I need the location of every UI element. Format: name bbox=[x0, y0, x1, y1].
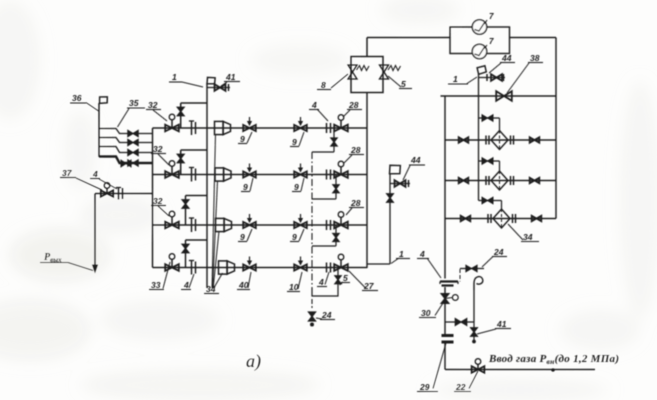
valve vent row 2 bbox=[333, 185, 339, 193]
label 7 top bbox=[485, 12, 495, 24]
caption a) bbox=[246, 351, 261, 372]
flag vent 36 bbox=[99, 96, 108, 104]
label 5 row4 bbox=[340, 273, 351, 285]
label 4 output bbox=[90, 169, 117, 189]
wire row 3 main bbox=[153, 224, 368, 226]
flange right row 1 bbox=[327, 123, 331, 133]
wire row 4 main bbox=[153, 267, 368, 269]
filter 34-3 bbox=[493, 209, 510, 228]
wire row 4 bypass bbox=[186, 240, 208, 268]
valve 35-4 bbox=[121, 160, 138, 167]
wire purge stand bbox=[473, 290, 475, 322]
valve 44 top bbox=[487, 74, 504, 81]
wire row 3 bypass bbox=[186, 196, 208, 226]
wire inlet line bbox=[445, 369, 595, 371]
svg-text:1: 1 bbox=[172, 72, 177, 82]
label 10 bbox=[287, 272, 302, 292]
label 1 left riser bbox=[169, 72, 203, 87]
nozzle 34 row 4 bbox=[219, 261, 235, 274]
wire dash joint link bbox=[459, 269, 461, 282]
label 4 row4 left bbox=[181, 274, 194, 290]
wire vent stub row 1 bbox=[333, 128, 335, 152]
flange filter left 1 bbox=[486, 136, 489, 145]
label 44 top bbox=[489, 53, 515, 73]
flange filter right 3 bbox=[513, 214, 516, 223]
label 9 row2 a bbox=[241, 178, 253, 192]
label 1 filter bbox=[448, 74, 477, 84]
flange row 1 bbox=[189, 121, 196, 135]
svg-text:27: 27 bbox=[363, 281, 375, 291]
svg-text:4: 4 bbox=[311, 100, 317, 110]
label 36 bbox=[70, 93, 99, 111]
wire riser to stand bbox=[367, 263, 390, 265]
svg-text:9: 9 bbox=[292, 232, 297, 242]
wire filter row 3 bbox=[445, 218, 556, 220]
valve 24 right bbox=[466, 265, 477, 272]
wire stub 24 right bbox=[460, 268, 484, 270]
flange row 3 bbox=[189, 218, 196, 232]
svg-text:34: 34 bbox=[523, 232, 533, 242]
valve bypass row 4 bbox=[182, 244, 189, 252]
wire filter top header bbox=[441, 95, 557, 97]
wire stub valve 44 top bbox=[479, 77, 506, 79]
svg-text:44: 44 bbox=[501, 53, 512, 63]
label 27 bbox=[349, 271, 378, 291]
meter 7 bottom bbox=[472, 44, 486, 58]
wire row 2 bypass bbox=[181, 150, 207, 175]
label 32 row3 bbox=[151, 196, 169, 216]
valve 44 stand bbox=[395, 180, 409, 187]
wire vent stub 3 bbox=[99, 147, 153, 153]
valve 28 row 3 bbox=[334, 212, 348, 229]
valve 28 row 1 bbox=[334, 115, 348, 132]
svg-text:40: 40 bbox=[238, 280, 249, 290]
valve purge bbox=[455, 319, 467, 326]
svg-text:24: 24 bbox=[321, 310, 332, 320]
valve 9a row 2 bbox=[243, 164, 256, 178]
wire output vertical bbox=[94, 194, 96, 267]
valve 9b row 4 bbox=[294, 257, 307, 271]
svg-text:38: 38 bbox=[530, 53, 540, 63]
wire right vertical bbox=[555, 38, 557, 219]
wire vent stub 4 bbox=[99, 157, 153, 164]
wire filter bypass 2 bbox=[479, 161, 500, 171]
wire vent stub 2 bbox=[99, 138, 153, 143]
wire vent jog row 2 bbox=[312, 198, 336, 200]
flange row 2 bbox=[189, 168, 196, 182]
label 33 bbox=[149, 262, 170, 290]
box meter bypass bbox=[450, 27, 510, 54]
svg-text:32: 32 bbox=[153, 144, 163, 154]
valve 28 inlet bbox=[472, 359, 485, 373]
label 9 row1 a bbox=[238, 132, 252, 144]
valve 9a row 1 bbox=[243, 117, 256, 131]
svg-text:41: 41 bbox=[496, 319, 507, 329]
wire main below joint bbox=[444, 287, 446, 334]
wire vent stub 1 bbox=[99, 129, 153, 134]
wire stub valve 41 bbox=[207, 87, 230, 89]
svg-text:5: 5 bbox=[401, 79, 406, 89]
flange row 4 bbox=[189, 261, 196, 275]
svg-text:9: 9 bbox=[294, 182, 299, 192]
wire filter row 2 bbox=[445, 180, 556, 182]
wire vent stub row 3 bbox=[335, 225, 337, 246]
wire left riser bbox=[206, 83, 208, 288]
node inlet tick bbox=[551, 368, 555, 372]
valve 9a row 4 bbox=[243, 257, 256, 271]
text inlet bbox=[488, 353, 619, 366]
flange right row 2 bbox=[327, 170, 331, 180]
wire filter bypass 1 bbox=[479, 118, 500, 130]
svg-text:1: 1 bbox=[453, 74, 458, 84]
svg-text:9: 9 bbox=[240, 134, 245, 144]
wire row 1 main bbox=[153, 127, 368, 129]
wire box top stub bbox=[366, 38, 368, 57]
valve filter right 3 bbox=[532, 216, 542, 221]
node drain end bbox=[472, 340, 476, 344]
svg-text:32: 32 bbox=[148, 100, 158, 110]
flag 1 vent stand bbox=[389, 164, 402, 174]
valve 27 row 4 bbox=[334, 254, 348, 271]
nozzle 34 row 2 bbox=[215, 168, 231, 181]
valve 9a row 3 bbox=[243, 214, 256, 228]
filter 34-1 bbox=[491, 131, 508, 150]
valve bypass row 1 bbox=[177, 107, 184, 115]
valve 38 bbox=[496, 91, 512, 101]
valve 9b row 1 bbox=[294, 117, 307, 131]
wire output horizontal bbox=[95, 193, 153, 195]
svg-text:8: 8 bbox=[321, 80, 326, 90]
valve 41 drain bbox=[471, 328, 477, 336]
label 4 row4 right bbox=[317, 272, 329, 287]
wire vent jog row 1 bbox=[312, 151, 334, 153]
svg-text:7: 7 bbox=[489, 12, 494, 21]
label 24 right bbox=[482, 247, 507, 267]
label 30 bbox=[419, 303, 443, 318]
valve vent row 1 bbox=[331, 138, 337, 146]
arrow output down bbox=[93, 265, 98, 272]
wire stub valve 44 stand bbox=[390, 183, 410, 185]
wire filter row 1 bbox=[445, 139, 556, 141]
label 32 row2 bbox=[151, 144, 169, 165]
valve 9b row 3 bbox=[294, 214, 307, 228]
svg-text:10: 10 bbox=[289, 282, 299, 292]
flange right row 3 bbox=[327, 220, 331, 230]
label 9 row2 b bbox=[292, 178, 304, 192]
svg-text:9: 9 bbox=[240, 232, 245, 242]
label 35 bbox=[118, 98, 146, 127]
box regulators bbox=[351, 57, 383, 93]
label 7 bottom bbox=[485, 37, 495, 49]
flange filter right 2 bbox=[511, 176, 514, 185]
svg-text:44: 44 bbox=[410, 155, 421, 165]
wire drain stub 41 bbox=[473, 322, 475, 341]
bellows 29 bbox=[442, 336, 454, 343]
wire meter out right bbox=[510, 37, 557, 39]
svg-text:5: 5 bbox=[343, 273, 348, 283]
valve 32 row 1 bbox=[165, 114, 179, 131]
valve 30 bbox=[441, 294, 458, 304]
valve vent row 3 bbox=[333, 234, 339, 242]
wire filter left vertical bbox=[444, 96, 446, 279]
label 28 row3 bbox=[346, 198, 364, 215]
svg-text:24: 24 bbox=[493, 247, 504, 257]
svg-text:4: 4 bbox=[92, 169, 98, 179]
svg-text:1: 1 bbox=[399, 249, 404, 259]
wire purge branch bbox=[445, 321, 474, 323]
svg-text:37: 37 bbox=[62, 168, 73, 178]
svg-text:4: 4 bbox=[318, 277, 324, 287]
valve 9b row 2 bbox=[294, 164, 307, 178]
svg-text:28: 28 bbox=[350, 198, 361, 208]
valve vent stand bbox=[387, 194, 393, 202]
valve 35-1 bbox=[128, 130, 138, 136]
label 9 row1 b bbox=[290, 132, 304, 147]
svg-text:32: 32 bbox=[153, 196, 163, 206]
valve bypass row 3 bbox=[182, 200, 189, 208]
wire left manifold bbox=[152, 128, 154, 268]
wire vent U row4 bbox=[312, 288, 338, 296]
valve filter left 3 bbox=[461, 216, 471, 221]
valve 37 bbox=[101, 183, 113, 197]
wire vent jog row 3 bbox=[312, 245, 336, 247]
label 5 regulator bbox=[388, 76, 412, 89]
label 9 row3 a bbox=[238, 229, 252, 242]
wire row 1 bypass bbox=[181, 103, 207, 128]
flange filter right 1 bbox=[511, 136, 514, 145]
insulating joint 4 bbox=[440, 282, 458, 286]
valve 35-2 bbox=[128, 139, 138, 145]
regulator 5 bbox=[380, 65, 401, 79]
label 41 top bbox=[221, 72, 240, 86]
svg-text:28: 28 bbox=[348, 100, 359, 110]
regulator 8 bbox=[348, 65, 369, 79]
flange right row 4 bbox=[327, 263, 331, 273]
valve 28 row 2 bbox=[334, 161, 348, 178]
label 8 bbox=[317, 74, 348, 90]
valve filter left 2 bbox=[459, 178, 469, 183]
wire vent stand bbox=[389, 174, 391, 264]
label 29 bbox=[417, 343, 446, 392]
wire vent tail bbox=[311, 299, 313, 308]
wire meter feed left bbox=[367, 37, 450, 39]
svg-text:30: 30 bbox=[421, 308, 431, 318]
wire filter bypass 3 bbox=[479, 201, 502, 210]
label 1 vent stand bbox=[391, 249, 410, 264]
svg-text:34: 34 bbox=[206, 284, 216, 294]
valve filter bypass 3 bbox=[482, 197, 493, 203]
svg-text:Ввод газа Pвн(до 1,2 МПа): Ввод газа Pвн(до 1,2 МПа) bbox=[488, 353, 619, 366]
label 28 row1 bbox=[343, 100, 362, 117]
valve filter right 1 bbox=[530, 137, 540, 142]
svg-text:29: 29 bbox=[419, 382, 430, 392]
flag 1 filter bbox=[476, 65, 487, 75]
svg-text:33: 33 bbox=[151, 280, 161, 290]
label 37 bbox=[60, 168, 102, 190]
hook vent outlet bbox=[474, 277, 483, 290]
label 41 drain bbox=[477, 319, 511, 334]
valve 41 top bbox=[215, 84, 229, 91]
svg-text:4: 4 bbox=[419, 249, 425, 259]
valve filter right 2 bbox=[530, 178, 540, 183]
svg-text:36: 36 bbox=[72, 93, 82, 103]
flange 4 output bbox=[116, 188, 123, 200]
svg-text:41: 41 bbox=[225, 72, 236, 82]
svg-text:7: 7 bbox=[489, 37, 494, 46]
leader fan 34 bbox=[212, 134, 223, 288]
label 28 row2 bbox=[344, 145, 364, 163]
label 28 inlet bbox=[454, 371, 478, 392]
flag 1 left riser bbox=[206, 77, 215, 85]
meter 7 top bbox=[472, 20, 486, 34]
valve filter bypass 2 bbox=[482, 158, 493, 164]
wire vent stub row 4 bbox=[337, 268, 339, 289]
valve 33 row 4 bbox=[165, 254, 179, 271]
valve filter bypass 1 bbox=[482, 115, 493, 121]
valve 35-3 bbox=[128, 149, 138, 155]
nozzle 34 row 1 bbox=[215, 121, 231, 134]
label 4 row1 flange bbox=[309, 100, 328, 121]
label Pvyh bbox=[40, 252, 93, 271]
label 24 vent bbox=[316, 310, 335, 320]
svg-text:9: 9 bbox=[243, 182, 248, 192]
label 34 nozzles bbox=[204, 284, 219, 294]
label 4 joint bbox=[417, 249, 441, 278]
svg-text:35: 35 bbox=[129, 98, 139, 108]
svg-text:9: 9 bbox=[292, 137, 297, 147]
wire to inlet bbox=[444, 344, 446, 370]
svg-text:28: 28 bbox=[350, 145, 361, 155]
wire row 2 main bbox=[153, 174, 368, 176]
wire filter mid vertical bbox=[478, 74, 480, 201]
wire vent stub row 2 bbox=[335, 175, 337, 200]
wire right riser bbox=[366, 93, 368, 269]
wire vent header bbox=[311, 152, 313, 288]
label 9 row3 b bbox=[290, 229, 304, 242]
valve vent row 4 bbox=[335, 276, 341, 284]
flange filter left 2 bbox=[486, 176, 489, 185]
label 44 stand bbox=[403, 155, 425, 180]
label 32 row1 bbox=[146, 100, 167, 121]
valve 24 vent bbox=[309, 312, 316, 321]
svg-text:а): а) bbox=[246, 351, 261, 372]
label 40 bbox=[237, 272, 251, 290]
flange filter left 3 bbox=[488, 214, 491, 223]
valve bypass row 2 bbox=[177, 154, 184, 162]
filter 34-2 bbox=[491, 171, 508, 190]
svg-text:22: 22 bbox=[455, 382, 466, 392]
svg-text:4: 4 bbox=[183, 280, 189, 290]
nozzle 34 row 3 bbox=[216, 218, 232, 231]
label 38 bbox=[507, 53, 543, 93]
valve 32 row 3 bbox=[165, 211, 179, 228]
node vent collector pole 36 bbox=[98, 103, 100, 157]
label 34 filter bbox=[508, 224, 539, 242]
valve 32 row 2 bbox=[165, 161, 179, 178]
node vent end dot bbox=[310, 323, 314, 327]
valve filter left 1 bbox=[459, 137, 469, 142]
